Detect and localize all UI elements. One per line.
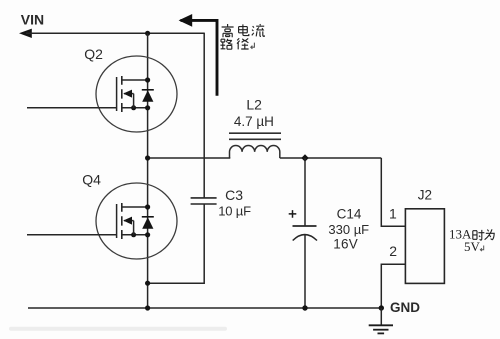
svg-text:2: 2 [389,243,397,259]
inductor L2 winding [230,146,280,158]
wire L2 output to J2 corner [280,157,382,159]
annotation 路径 (line 2) [220,39,232,49]
wire VIN horizontal (top rail) [26,32,204,34]
svg-text:Q4: Q4 [82,172,101,188]
wire ground rail [28,307,381,309]
wire J2 pin2 to ground [381,264,405,308]
high current path arrowhead [179,14,193,27]
svg-text:Q2: Q2 [84,46,103,62]
svg-text:4.7 µH: 4.7 µH [234,114,274,129]
node L2 output / C14 (diamond junction) [301,154,308,161]
capacitor C14 plus sign [289,210,297,218]
Q4 body diode triangle [142,217,153,229]
svg-text:5V: 5V [464,239,481,254]
capacitor C14 straight plate [293,225,317,227]
VIN input arrowhead [19,29,32,38]
inductor L2 core bar 2 [229,138,281,140]
wire C3 bottom lead [148,204,205,283]
svg-text:VIN: VIN [21,11,44,27]
Q4 channel segments [121,203,123,239]
transistor Q2 [27,46,177,132]
wire VIN drop to C3 (vertical, crosses switch-node wire without junction) [203,33,205,198]
Q2 body diode cathode bar [142,89,154,91]
capacitor C14 bottom lead [304,234,306,308]
Q4 substrate to source connector [133,221,135,235]
svg-text:10 µF: 10 µF [218,203,251,218]
Q2 body diode triangle [142,90,153,102]
node bus to ground rail [145,305,150,310]
wire main bus vertical (Q2 drain to ground rail) [147,33,149,308]
svg-text:16V: 16V [333,237,358,252]
Q2 drain junction dot [145,77,150,82]
Q4 body circle [96,183,177,259]
ground symbol bar 3 [378,332,385,334]
capacitor C3 plate 2 [191,203,217,205]
node switch (Q2 source / Q4 drain / L2) [145,155,150,160]
capacitor C3 top lead is the VIN drop; C3 plate 1 [191,197,217,199]
Q4 gate wire [27,234,117,236]
svg-text:330 µF: 330 µF [328,222,369,237]
Q4 drain junction dot [145,204,150,209]
svg-text:J2: J2 [418,188,432,203]
svg-text:C14: C14 [337,206,362,221]
Q4 drain lead [122,206,148,208]
connector J2 body [405,209,444,284]
Q2 drain lead [122,79,148,81]
svg-text:C3: C3 [225,187,243,203]
node VIN / Q2 drain bus junction [145,31,150,36]
transistor Q4 [27,172,177,259]
Q2 gate wire [27,107,117,109]
wire J2 pin1 drop [381,158,405,226]
Q4 substrate arrow (points to channel) [124,220,134,222]
capacitor C14 top lead [304,158,306,226]
svg-text:1: 1 [389,205,397,221]
Q2 gate bar [116,77,118,111]
inductor L2 core bar 1 [229,132,281,134]
ground symbol bar 2 [373,329,388,331]
paragraph return mark after 5V [480,246,483,252]
Q2 channel segments [121,76,123,112]
Q2 source lead [122,107,148,109]
Q4 body diode cathode bar [142,216,154,218]
Q2 substrate arrow (points to channel) [124,93,134,95]
Q4 source lead [122,234,148,236]
ground symbol stem [380,308,382,325]
capacitor C14 curved plate [293,235,317,241]
node C14 to ground rail [302,305,307,310]
wire switch node to L2 [148,157,231,159]
faint scan smudge bottom left [9,327,227,331]
svg-text:L2: L2 [246,97,262,113]
Q4 gate bar [116,204,118,238]
Q4 source junction dots [131,232,136,237]
Q2 source junction dots [131,105,136,110]
svg-text:GND: GND [390,300,420,315]
high current path arrow (thick) [181,20,218,95]
node J2 pin2 / GND [379,305,384,310]
ground symbol bar 1 [369,324,393,326]
node C3 return to bus [145,281,150,286]
annotation 高电流 (line 1) [222,24,234,37]
Q2 substrate to source connector [133,94,135,108]
Q2 body circle [96,56,177,132]
paragraph return mark after 路径 [251,43,255,49]
